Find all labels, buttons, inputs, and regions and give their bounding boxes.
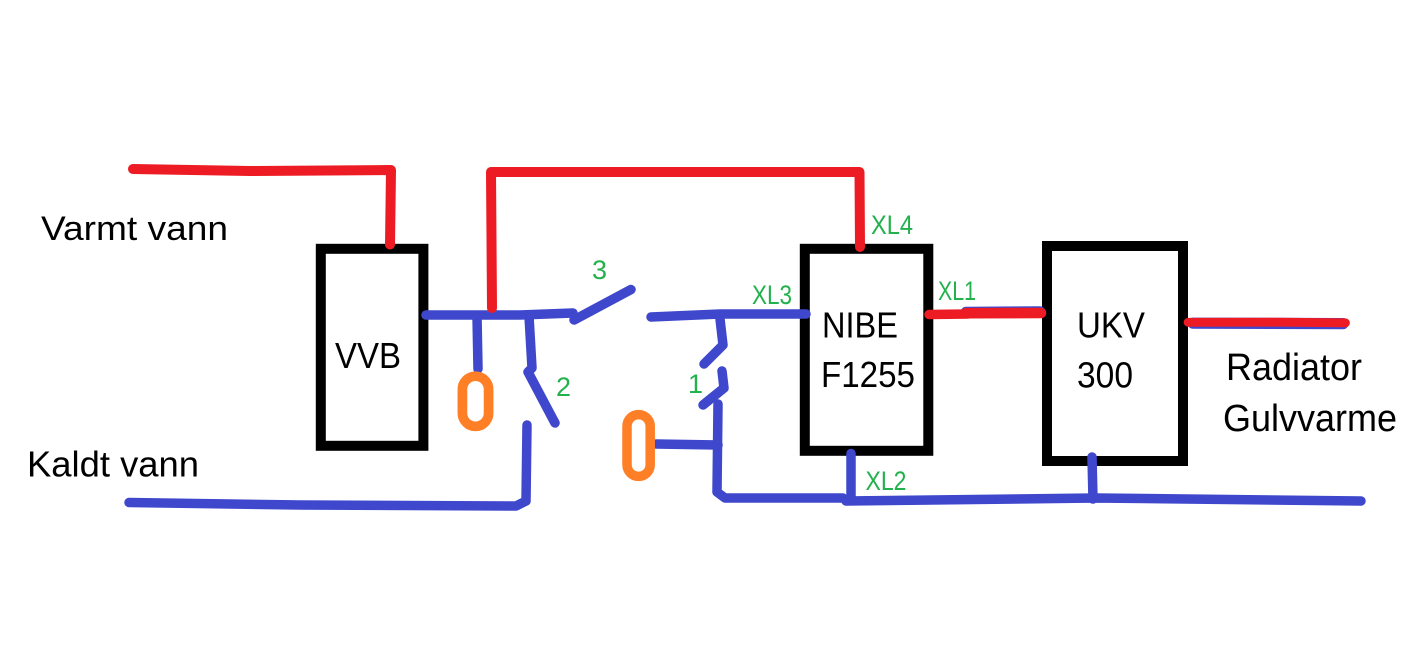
switch 1 upper lever [704,319,723,364]
svg-text:300: 300 [1077,355,1133,396]
wire drop to valve 1 [477,316,478,369]
box UKV 300 (buffer tank) [1047,246,1183,461]
wire blue bus to XL3 [651,314,806,317]
svg-text:NIBE: NIBE [822,305,898,346]
wire blue understroke below UKV red out [1193,318,1343,330]
box VVB (tank) [321,249,424,446]
svg-text:1: 1 [688,369,703,399]
svg-text:XL3: XL3 [752,280,792,310]
svg-text:Varmt vann: Varmt vann [41,210,228,248]
svg-text:XL1: XL1 [938,276,976,306]
svg-text:XL2: XL2 [866,466,907,496]
switch 1 lower lever [703,371,724,405]
wire blue understroke below XL1 red link [966,306,1040,317]
wire UKV bottom drop [1092,457,1093,499]
svg-text:Radiator: Radiator [1226,347,1362,389]
box NIBE F1255 (heat pump) [805,249,929,451]
svg-text:F1255: F1255 [821,354,915,395]
valve 2 (orange) [627,415,650,477]
svg-text:UKV: UKV [1077,305,1145,346]
svg-text:Kaldt vann: Kaldt vann [27,444,199,485]
wire riser below switch 1 to bottom run [717,404,843,498]
wire kaldt vann riser and bottom run [129,425,527,506]
svg-text:3: 3 [592,255,607,285]
svg-text:2: 2 [556,372,571,402]
switch 3 lever [574,290,631,321]
svg-text:Gulvvarme: Gulvvarme [1223,398,1397,440]
wire blue bus VVB to switch 3 [426,313,573,315]
pipe red UKV out to radiator [1188,318,1346,327]
wire valve 2 link [656,444,718,445]
pipe red XL1 link left part [929,309,968,319]
switch 2 [528,316,555,423]
svg-text:VVB: VVB [335,335,401,376]
wire bottom run right [846,498,1361,501]
svg-text:XL4: XL4 [871,210,913,240]
wire NIBE XL2 drop [846,454,856,501]
pipe red loop to NIBE XL4 [491,172,860,308]
pipe red varmt vann into VVB [133,169,391,245]
pipe red XL1 link right part [966,308,1041,319]
valve 1 (orange) [462,376,488,426]
